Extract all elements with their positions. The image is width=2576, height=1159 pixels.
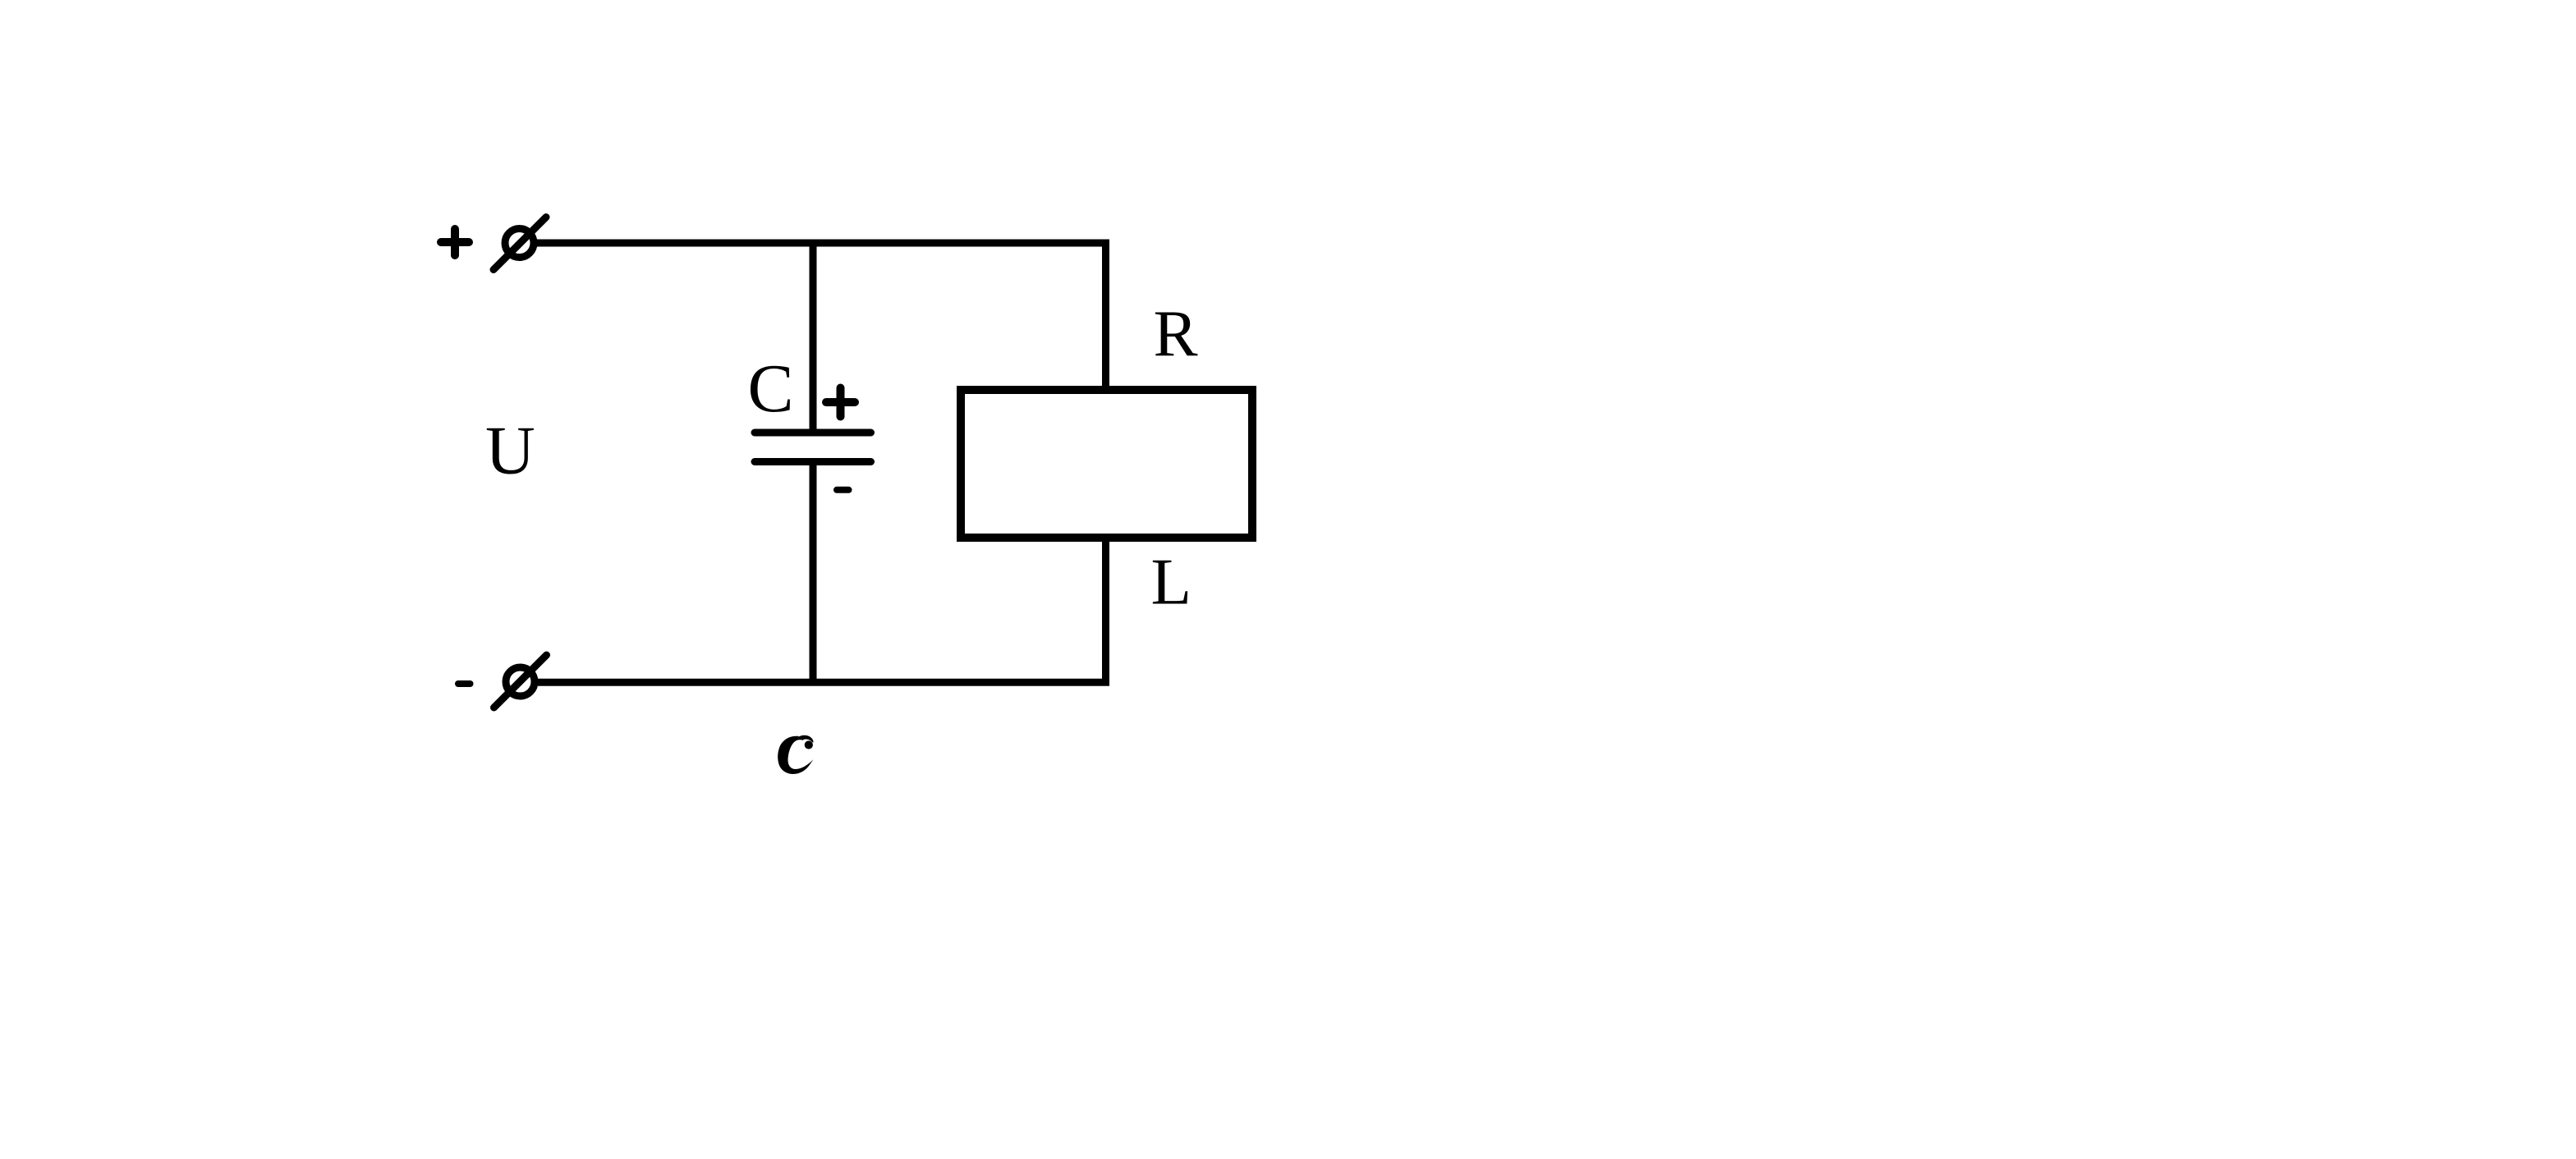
wire: bottom node from - terminal to corner, up to box bbox=[538, 538, 1106, 682]
terminal (+) circle bbox=[505, 229, 534, 258]
wire: capacitor top lead bbox=[810, 243, 817, 431]
svg-text:R: R bbox=[1154, 296, 1198, 370]
terminal (+) slash bbox=[494, 218, 546, 270]
node label script c bbox=[778, 735, 813, 774]
svg-text:L: L bbox=[1151, 545, 1192, 619]
svg-text:U: U bbox=[485, 413, 535, 489]
terminal (-) slash bbox=[494, 655, 547, 708]
plus polarity label of terminal bbox=[441, 229, 469, 255]
capacitor C plus polarity bbox=[826, 388, 855, 417]
capacitor C top plate bbox=[755, 429, 871, 437]
terminal (-) circle bbox=[506, 667, 535, 696]
load box R L bbox=[961, 390, 1252, 538]
svg-text:C: C bbox=[748, 350, 794, 427]
capacitor C minus polarity bbox=[837, 487, 849, 493]
wire: capacitor bottom lead bbox=[810, 462, 817, 683]
node label script c ball terminal bbox=[805, 740, 813, 749]
wire: top node from + terminal to R branch corner, down to box bbox=[537, 243, 1106, 386]
minus polarity label of terminal bbox=[458, 680, 471, 687]
capacitor C bottom plate bbox=[755, 458, 871, 465]
